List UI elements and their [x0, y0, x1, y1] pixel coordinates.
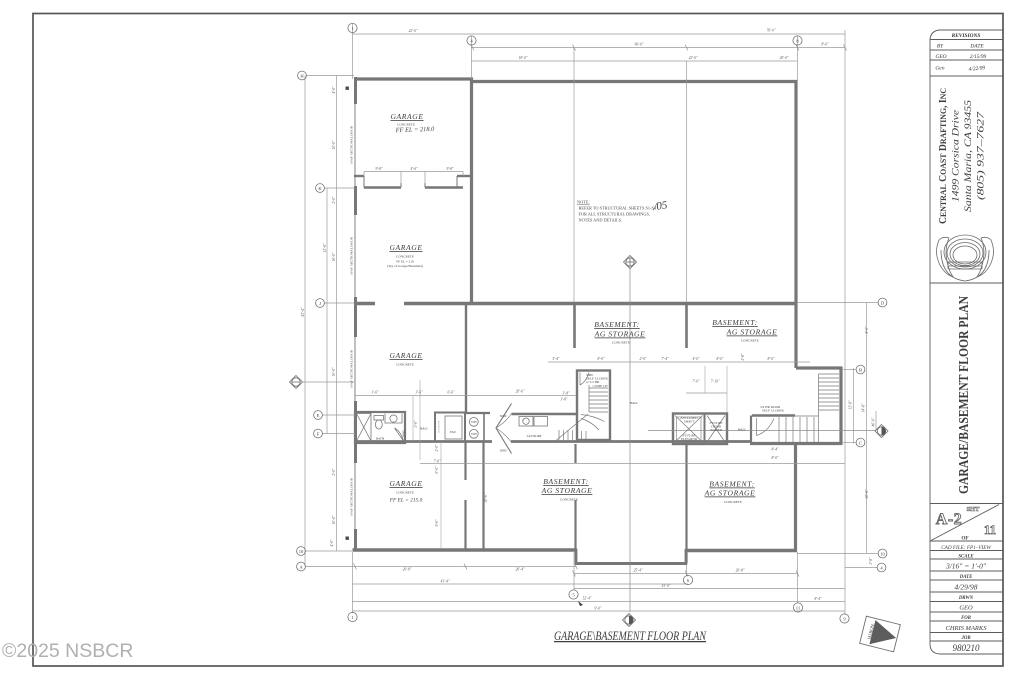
svg-text:OF: OF — [961, 536, 968, 542]
svg-text:REVISIONS: REVISIONS — [951, 33, 981, 39]
grid bubble 4 right — [877, 563, 886, 572]
dimension texts rotated — [301, 86, 876, 565]
svg-text:BASEMENT:: BASEMENT: — [709, 480, 754, 489]
svg-text:FF EL = 218: FF EL = 218 — [396, 260, 414, 264]
svg-text:25'-4": 25'-4" — [634, 569, 643, 573]
svg-text:BATH: BATH — [376, 437, 385, 441]
dim line left of garage4 x441 — [440, 442, 442, 548]
svg-text:AG STORAGE: AG STORAGE — [541, 486, 593, 495]
svg-text:16'x8' SECTIONAL DOOR: 16'x8' SECTIONAL DOOR — [350, 349, 354, 388]
svg-text:2'-8": 2'-8" — [869, 557, 873, 565]
grid line 8 vertical — [797, 36, 799, 81]
svg-text:16'x8' SECTIONAL DOOR: 16'x8' SECTIONAL DOOR — [350, 477, 354, 516]
svg-text:3'-8": 3'-8" — [562, 392, 570, 396]
svg-text:DATE: DATE — [969, 44, 984, 50]
svg-text:22'-0": 22'-0" — [689, 56, 698, 60]
svg-text:4'-0": 4'-0" — [692, 357, 700, 361]
svg-text:REFER TO STRUCTURAL SHEETS S1-: REFER TO STRUCTURAL SHEETS S1-S4 — [579, 206, 657, 211]
svg-text:83'-4": 83'-4" — [301, 307, 305, 316]
column line x686 — [686, 61, 688, 302]
left dim vertical x305 — [304, 76, 306, 567]
grid bubble 10 right — [878, 549, 887, 558]
svg-text:10'-0": 10'-0" — [332, 140, 336, 149]
grid bubble B right — [856, 365, 865, 374]
revisions row lines — [930, 39, 1003, 41]
left stair treads — [581, 385, 608, 430]
wall stub below mid wall at x=686 — [685, 304, 688, 349]
svg-text:20'-8": 20'-8" — [736, 569, 745, 573]
svg-text:52'-4": 52'-4" — [583, 597, 592, 601]
right side dim verticals — [853, 368, 855, 444]
svg-text:10'-0": 10'-0" — [332, 367, 336, 376]
svg-text:7'-4": 7'-4" — [661, 357, 669, 361]
svg-text:11: 11 — [984, 522, 996, 537]
dim line y395 hall — [355, 395, 576, 397]
svg-text:(Typ of Garage/Basement): (Typ of Garage/Basement) — [387, 264, 423, 268]
elevator divider wall — [704, 414, 706, 445]
hose bib mark bottom — [346, 537, 349, 540]
svg-text:GARAGE: GARAGE — [390, 112, 423, 121]
grid line 4 vertical — [471, 36, 473, 79]
svg-text:12'-8": 12'-8" — [849, 400, 853, 409]
wall right of garage4 — [464, 442, 466, 480]
left section marker line — [303, 381, 354, 383]
WH closet walls — [465, 412, 490, 414]
svg-text:(805) 937–7627: (805) 937–7627 — [976, 111, 986, 200]
svg-text:Geo: Geo — [935, 65, 945, 72]
svg-text:16'x8' SECTIONAL DOOR: 16'x8' SECTIONAL DOOR — [350, 125, 354, 164]
left stair door arc — [580, 373, 589, 386]
handwritten pen mark near bubble 5 — [578, 601, 583, 606]
svg-text:4/29/98: 4/29/98 — [955, 583, 978, 592]
svg-text:CENTRAL COAST DRAFTING, INC: CENTRAL COAST DRAFTING, INC — [938, 88, 949, 224]
stair bumpout top wall — [796, 366, 843, 369]
svg-text:AG STORAGE: AG STORAGE — [726, 328, 778, 337]
svg-text:WH: WH — [471, 432, 477, 436]
grid bubble 8 top — [793, 36, 802, 45]
garage right wall upper — [470, 78, 473, 306]
laundry top wall — [512, 413, 577, 415]
svg-text:8'-0": 8'-0" — [771, 456, 779, 460]
svg-text:16'-0": 16'-0" — [332, 515, 336, 524]
svg-text:w/1/3 HR: w/1/3 HR — [586, 380, 600, 384]
section cut vertical line — [629, 268, 631, 612]
svg-text:5'-4": 5'-4" — [552, 357, 560, 361]
svg-text:NOTES AND DETAILS.: NOTES AND DETAILS. — [579, 218, 623, 223]
svg-text:20'-0": 20'-0" — [780, 56, 789, 60]
garage sectional doors on left wall (thin) — [354, 104, 356, 529]
right hall top wall — [752, 414, 795, 416]
wall below stair x=575 — [574, 444, 576, 463]
grid bubble 5 bottom — [569, 590, 578, 599]
grid line 1 vertical — [352, 24, 354, 79]
svg-text:GARAGE/BASEMENT FLOOR PLAN: GARAGE/BASEMENT FLOOR PLAN — [956, 296, 971, 494]
svg-text:8'-0": 8'-0" — [767, 357, 775, 361]
column line x574 — [573, 48, 575, 303]
svg-text:9'-0": 9'-0" — [594, 607, 602, 611]
svg-text:20'-8": 20'-8" — [865, 489, 869, 498]
svg-text:3'-6": 3'-6" — [415, 391, 423, 395]
svg-text:11: 11 — [796, 605, 801, 610]
section marker right — [875, 425, 888, 438]
svg-text:BY: BY — [937, 44, 944, 50]
garage top wall — [354, 77, 473, 80]
svg-text:WAITER: WAITER — [710, 428, 723, 432]
BUBBLES — [290, 23, 889, 626]
svg-text:20'-8": 20'-8" — [403, 568, 412, 572]
stair bumpout right wall — [839, 367, 842, 444]
svg-text:9'-8": 9'-8" — [375, 167, 383, 171]
dim line mid band y361 — [548, 361, 810, 363]
svg-text:7'-6": 7'-6" — [433, 460, 441, 464]
svg-text:3080: 3080 — [402, 430, 406, 437]
right bubble leaders — [797, 302, 878, 304]
svg-text:HALL: HALL — [419, 427, 428, 431]
svg-text:GEO: GEO — [959, 605, 973, 612]
svg-text:CONCRETE: CONCRETE — [560, 498, 578, 502]
svg-text:41'-0": 41'-0" — [662, 584, 671, 588]
svg-text:HALL: HALL — [737, 428, 746, 432]
svg-text:41'-4": 41'-4" — [441, 580, 450, 584]
svg-text:E: E — [317, 413, 320, 418]
svg-text:4'-6": 4'-6" — [410, 167, 418, 171]
right stair lower run treads — [779, 417, 814, 442]
elevator shaft X left — [675, 416, 703, 443]
grid bubble C right — [856, 438, 865, 447]
svg-text:3'-6": 3'-6" — [414, 420, 418, 428]
bath shower x-box — [357, 414, 372, 442]
FAU unit — [445, 416, 462, 439]
logo bottom line — [930, 282, 1003, 284]
svg-text:GARAGE: GARAGE — [389, 479, 422, 488]
section cut horizontal line — [648, 430, 876, 432]
svg-text:76'-0": 76'-0" — [767, 29, 776, 33]
svg-text:12'-8": 12'-8" — [323, 243, 327, 252]
top dim line 2 — [471, 47, 845, 49]
grid bubble F left — [314, 429, 323, 438]
svg-text:CAD FILE: FP1–VIEW: CAD FILE: FP1–VIEW — [941, 545, 991, 551]
section marker bottom center — [623, 614, 636, 627]
svg-text:980210: 980210 — [953, 643, 981, 653]
svg-text:A-2: A-2 — [936, 511, 962, 528]
bath door swing — [395, 428, 404, 441]
bottom notch wall — [575, 562, 687, 565]
dryer — [534, 417, 548, 427]
left bubble leader lines — [306, 75, 354, 77]
grid bubble A bottom left — [297, 562, 306, 571]
svg-text:1499 Corsica Drive: 1499 Corsica Drive — [951, 110, 961, 202]
svg-text:SHT: SHT — [966, 506, 980, 513]
main mid wall at y=303 across building — [354, 302, 375, 305]
north arrow — [860, 616, 901, 652]
svg-text:CONCRETE: CONCRETE — [724, 500, 742, 504]
svg-text:JOB: JOB — [960, 636, 971, 641]
svg-text:SELF CLOSER: SELF CLOSER — [762, 409, 784, 413]
grid bubble J left — [316, 299, 325, 308]
sheet number box lines — [930, 503, 1003, 505]
elevator shaft X right — [707, 416, 725, 443]
svg-text:9'-8": 9'-8" — [446, 167, 454, 171]
svg-text:©2025 NSBCR: ©2025 NSBCR — [2, 640, 133, 662]
svg-text:CONCRETE: CONCRETE — [396, 491, 414, 495]
wall stub below mid wall at x=574 — [573, 304, 576, 349]
svg-text:BASEMENT:: BASEMENT: — [543, 477, 588, 486]
corridor bottom wall — [354, 440, 492, 443]
grid bubble K left — [316, 184, 325, 193]
svg-text:6'-6": 6'-6" — [447, 391, 455, 395]
svg-text:20'-6": 20'-6" — [516, 390, 525, 394]
left dim vertical x327 — [326, 188, 328, 434]
wall below elevator x=686 — [685, 444, 687, 563]
right hall left wall — [750, 416, 752, 443]
small dim ticks — [354, 45, 847, 577]
svg-text:6'-0": 6'-0" — [435, 466, 439, 474]
svg-text:10: 10 — [299, 549, 304, 554]
svg-text:3'-6": 3'-6" — [371, 391, 379, 395]
svg-text:4'-0": 4'-0" — [330, 539, 334, 547]
svg-text:FOR: FOR — [961, 616, 972, 621]
svg-text:BASEMENT:: BASEMENT: — [594, 320, 639, 329]
svg-text:GARAGE\BASEMENT FLOOR PLAN: GARAGE\BASEMENT FLOOR PLAN — [554, 629, 707, 643]
svg-text:SCALE: SCALE — [958, 555, 973, 560]
company logo (concentric arcs with crescents) — [937, 235, 994, 281]
svg-text:FAU: FAU — [449, 430, 457, 434]
elevator shaft block — [673, 414, 727, 445]
laundry understair treads — [556, 414, 588, 441]
PLAN-DETAILS — [346, 87, 840, 540]
svg-text:2'-8": 2'-8" — [741, 353, 745, 361]
svg-text:AIR FILTER: AIR FILTER — [438, 420, 441, 433]
svg-text:8'-0": 8'-0" — [821, 43, 829, 47]
svg-text:7'-0": 7'-0" — [692, 380, 700, 384]
double door 3080 pair — [496, 404, 512, 454]
right dim extension x845 — [844, 30, 846, 615]
grid bubble H left — [298, 71, 307, 80]
elevator dim line y393 — [686, 392, 727, 394]
svg-text:CONCRETE: CONCRETE — [741, 339, 759, 343]
svg-text:GARAGE: GARAGE — [389, 243, 422, 252]
svg-text:2/15/99: 2/15/99 — [970, 54, 987, 60]
water heater 1 — [469, 417, 478, 426]
svg-text:18'-0": 18'-0" — [519, 56, 528, 60]
svg-text:3080: 3080 — [500, 414, 507, 418]
bottom right bubble leaders — [797, 553, 878, 555]
svg-text:CONCRETE: CONCRETE — [612, 341, 630, 345]
left stair enclosure — [577, 371, 610, 441]
left dim vertical x336 — [336, 76, 338, 552]
svg-text:∕05: ∕05 — [652, 199, 669, 213]
svg-text:F: F — [317, 431, 320, 436]
bath toilet — [374, 416, 384, 421]
svg-text:2'-0": 2'-0" — [435, 444, 439, 452]
svg-text:CONCRETE: CONCRETE — [396, 255, 414, 259]
PLAN-WALLS — [353, 77, 843, 565]
svg-text:3080: 3080 — [500, 449, 507, 453]
svg-text:3/16" = 1'-0": 3/16" = 1'-0" — [945, 562, 987, 571]
svg-text:7'-10": 7'-10" — [711, 380, 720, 384]
svg-text:J: J — [319, 301, 321, 306]
svg-text:8'-0": 8'-0" — [865, 326, 869, 334]
svg-text:DRWN: DRWN — [958, 596, 974, 601]
garage4 bottom wall — [353, 548, 578, 551]
svg-text:ELEVATOR: ELEVATOR — [680, 437, 698, 441]
grid bubble D right — [878, 298, 887, 307]
svg-text:FF EL = 218.0: FF EL = 218.0 — [395, 126, 436, 134]
section marker left — [290, 376, 303, 389]
svg-text:WH: WH — [471, 420, 477, 424]
top dim line 1 — [352, 33, 845, 35]
dimension texts horizontal — [371, 29, 829, 611]
svg-text:16'x8' SECTIONAL DOOR: 16'x8' SECTIONAL DOOR — [350, 236, 354, 275]
svg-text:8'-4": 8'-4" — [771, 448, 779, 452]
svg-text:8'-0": 8'-0" — [716, 357, 724, 361]
garage3 right wall — [465, 305, 467, 412]
svg-text:26'-4": 26'-4" — [516, 568, 525, 572]
svg-text:SHAFT: SHAFT — [684, 420, 695, 424]
section marker top center — [624, 256, 637, 269]
bottom wall right section — [685, 549, 797, 552]
svg-text:30'-6": 30'-6" — [484, 493, 488, 502]
svg-text:2'-0": 2'-0" — [639, 357, 647, 361]
basement top wall — [471, 80, 798, 83]
grid bubble 1 top — [348, 23, 357, 32]
hose bib mark top — [346, 87, 349, 90]
right stair upper run treads — [776, 374, 839, 442]
svg-text:3'-8": 3'-8" — [560, 398, 568, 402]
svg-text:2'-0": 2'-0" — [332, 196, 336, 204]
right exterior wall lower — [794, 443, 797, 552]
grid bubble 11 bottom — [793, 603, 802, 612]
svg-text:9'-6": 9'-6" — [435, 519, 439, 527]
svg-text:2'-0": 2'-0" — [332, 468, 336, 476]
grid bubble 1 bottom — [348, 612, 357, 621]
svg-text:Santa Maria, CA 93455: Santa Maria, CA 93455 — [963, 99, 973, 212]
svg-text:COME UP: COME UP — [593, 384, 608, 388]
svg-text:8'-0": 8'-0" — [597, 357, 605, 361]
chase wall x=483 — [482, 442, 484, 550]
wall between garage1 and garage2 — [354, 176, 471, 188]
top dim line 3 — [471, 60, 797, 62]
svg-text:22'-0": 22'-0" — [409, 29, 418, 33]
svg-text:DATE: DATE — [959, 575, 973, 580]
svg-text:14'-8": 14'-8" — [862, 403, 866, 412]
svg-text:AG STORAGE: AG STORAGE — [704, 489, 756, 498]
svg-text:HALL: HALL — [629, 401, 638, 405]
grid bubble 4 top — [467, 36, 476, 45]
svg-text:CHRIS MARKS: CHRIS MARKS — [946, 625, 988, 632]
FAU closet — [435, 413, 465, 442]
bottom notch left jog — [575, 549, 578, 565]
corridor top wall: bath block — [355, 412, 405, 443]
svg-text:10: 10 — [880, 551, 885, 556]
bottom dim lines — [574, 573, 798, 575]
svg-text:C: C — [859, 440, 862, 445]
grid bubble 6 bottom — [683, 575, 692, 584]
grid bubble 10 bottom left — [297, 547, 306, 556]
bath sink counter — [385, 414, 402, 424]
svg-text:BASEMENT:: BASEMENT: — [712, 318, 757, 327]
svg-text:46'-0": 46'-0" — [872, 417, 876, 426]
title block outline — [930, 30, 1003, 654]
svg-text:AG STORAGE: AG STORAGE — [594, 330, 646, 339]
svg-text:NOTE:: NOTE: — [577, 200, 590, 205]
svg-text:GARAGE: GARAGE — [389, 351, 422, 360]
TITLEBLOCK — [930, 30, 1003, 654]
left exterior wall segments — [354, 77, 357, 551]
dim line y463 below corridor — [420, 463, 845, 465]
bottom notch right jog — [685, 549, 688, 565]
svg-text:B: B — [859, 367, 862, 372]
svg-text:60'-0": 60'-0" — [635, 43, 644, 47]
svg-text:4'-0": 4'-0" — [332, 86, 336, 94]
grid bubble 9 bottom — [840, 614, 849, 623]
svg-text:CONCRETE: CONCRETE — [396, 363, 414, 367]
right hall door arc — [757, 418, 775, 436]
DIMLINES — [303, 24, 878, 615]
water heater 2 — [469, 429, 478, 438]
svg-text:16'-0": 16'-0" — [332, 252, 336, 261]
garage door head dim line — [364, 171, 463, 173]
svg-text:8'-4": 8'-4" — [814, 597, 822, 601]
svg-text:FF EL = 215.0: FF EL = 215.0 — [389, 498, 423, 504]
right exterior wall upper — [794, 80, 797, 368]
grid bubble E left — [314, 411, 323, 420]
stair bumpout bottom wall — [750, 442, 843, 445]
svg-text:GEO: GEO — [935, 54, 946, 60]
washer — [519, 417, 533, 427]
svg-text:LAUNDRY: LAUNDRY — [525, 434, 542, 438]
